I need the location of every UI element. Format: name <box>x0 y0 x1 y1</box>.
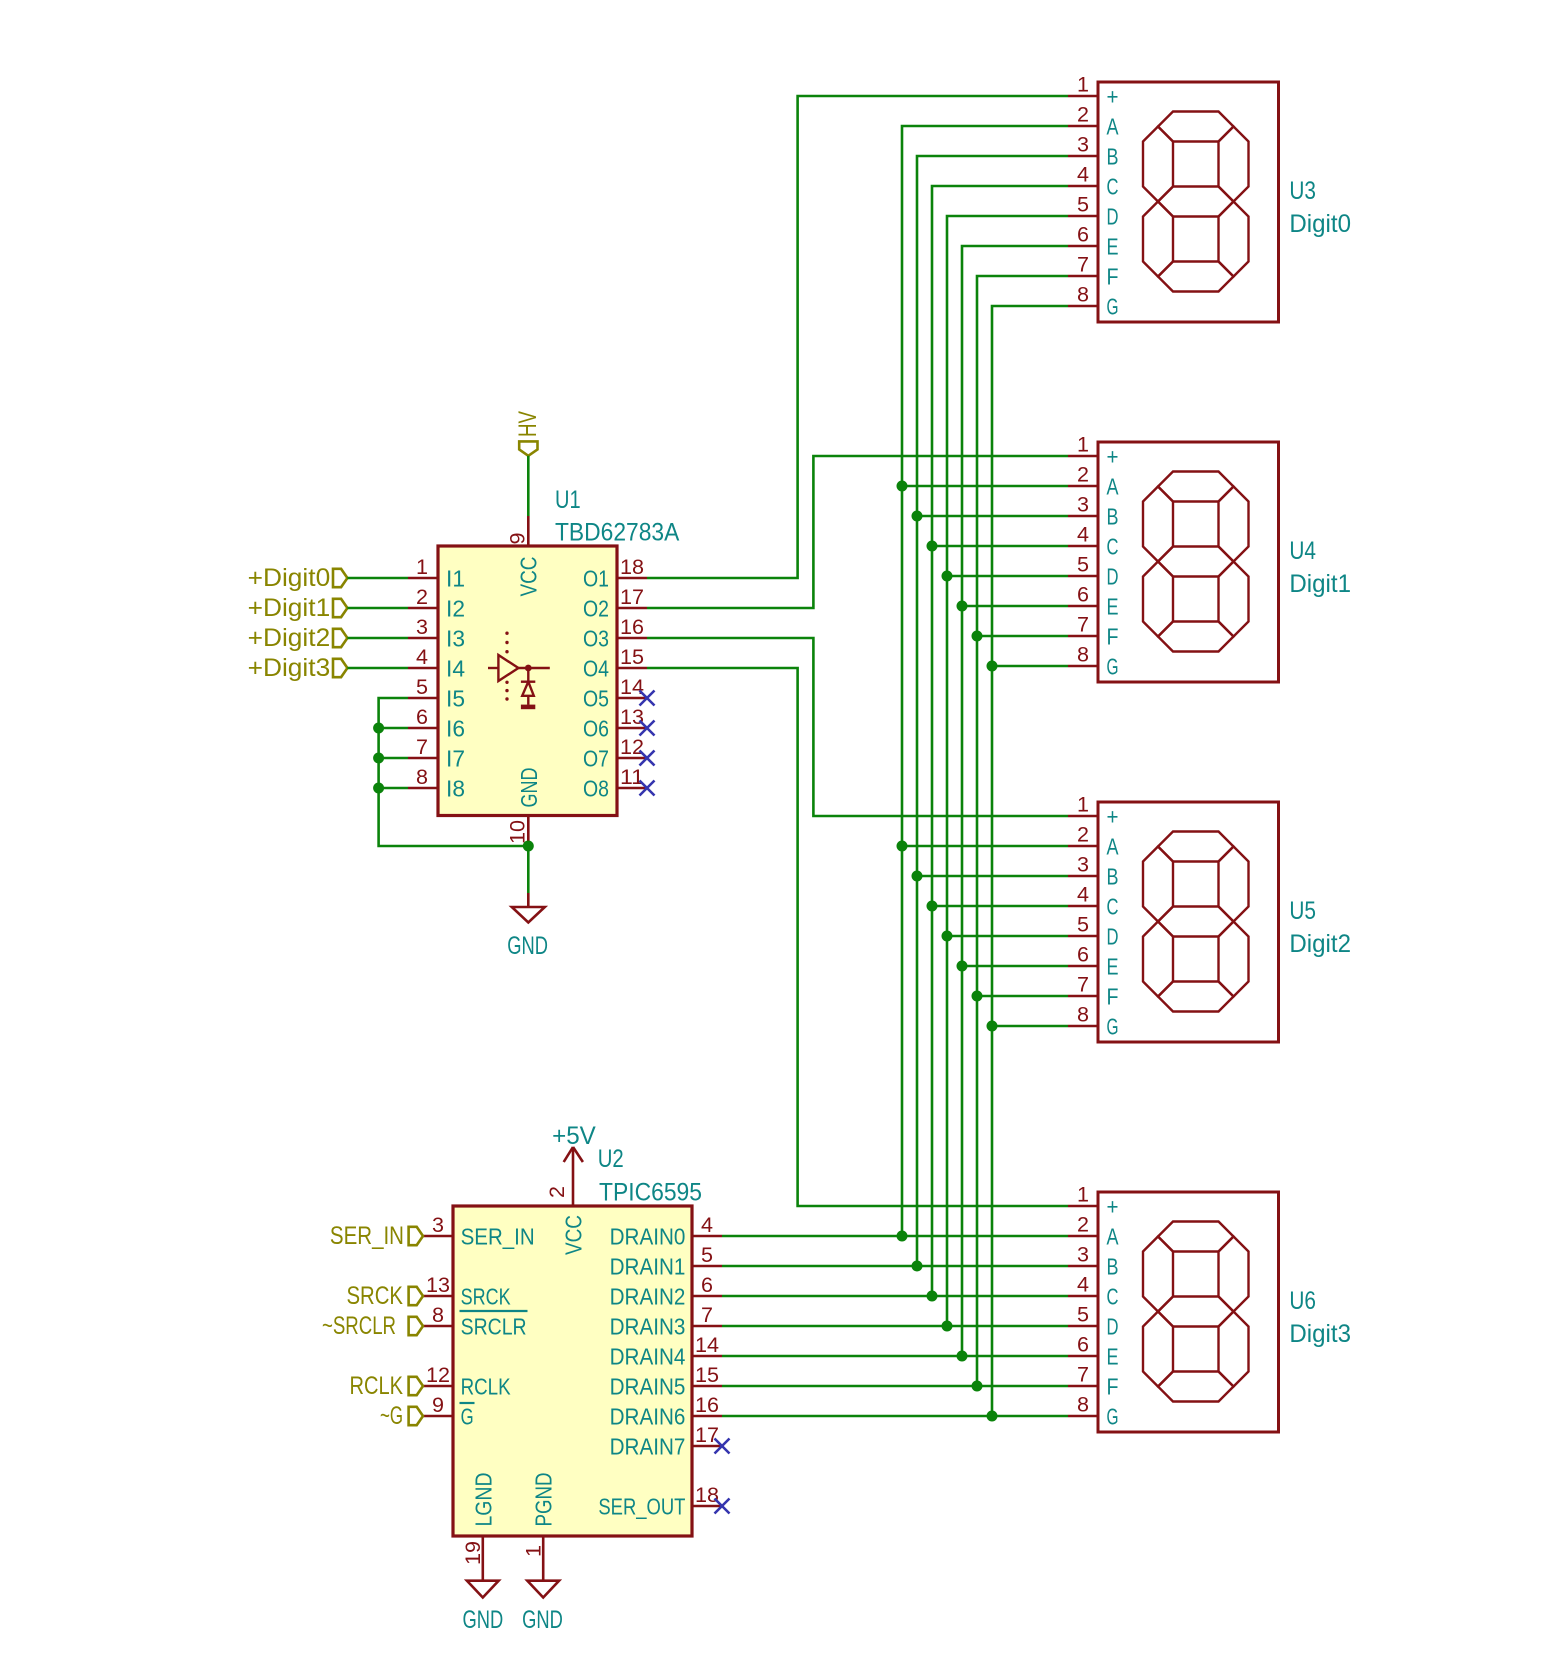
U3 segment C artwork <box>1219 202 1249 277</box>
U6 pin 7 (F) <box>1068 1364 1119 1400</box>
U4 segment C artwork <box>1219 562 1249 637</box>
U1 pin 7 (I7) <box>408 736 465 771</box>
svg-text:A: A <box>1107 1223 1120 1249</box>
U1 pin 11 (O8) <box>583 766 647 801</box>
U1 pin 2 (I2) <box>408 586 465 621</box>
svg-text:O2: O2 <box>583 595 609 621</box>
svg-text:+Digit1: +Digit1 <box>248 594 331 622</box>
U3 pin 5 (D) <box>1068 194 1119 230</box>
svg-text:B: B <box>1107 503 1119 529</box>
U6 segment C artwork <box>1219 1312 1249 1387</box>
svg-text:HV: HV <box>514 411 542 437</box>
svg-text:3: 3 <box>1077 134 1089 157</box>
svg-text:7: 7 <box>416 736 428 759</box>
U1 pin 10 (GND) <box>506 768 542 846</box>
svg-text:Digit3: Digit3 <box>1289 1320 1351 1348</box>
U3 pin 6 (E) <box>1068 224 1119 260</box>
svg-text:+: + <box>1107 803 1119 829</box>
U3 pin 4 (C) <box>1068 164 1119 200</box>
wire +Digit3 to U1 I4 <box>347 667 408 670</box>
svg-text:F: F <box>1107 983 1119 1009</box>
U2 pin 19 (LGND) <box>462 1473 496 1567</box>
junction SEG_G at U5 <box>987 1021 998 1032</box>
junction SEG_E at U4 <box>957 601 968 612</box>
svg-text:4: 4 <box>1077 884 1089 907</box>
svg-text:7: 7 <box>1077 254 1089 277</box>
U1 pin 8 (I8) <box>408 766 465 801</box>
svg-text:SER_IN: SER_IN <box>461 1223 535 1249</box>
junction SEG_E at U5 <box>957 961 968 972</box>
svg-text:+Digit2: +Digit2 <box>248 624 331 652</box>
U2 pin 5 (DRAIN1) <box>610 1244 722 1279</box>
U1 pin 14 (O5) <box>583 676 647 711</box>
U5 segment B artwork <box>1219 847 1249 922</box>
svg-text:7: 7 <box>701 1304 713 1327</box>
U5 segment D artwork <box>1158 982 1234 1012</box>
U5 pin 4 (C) <box>1068 884 1119 920</box>
svg-text:DRAIN1: DRAIN1 <box>610 1253 686 1279</box>
U1 pin 12 (O7) <box>583 736 647 771</box>
svg-text:I4: I4 <box>446 655 465 681</box>
svg-text:O4: O4 <box>583 655 609 681</box>
svg-text:11: 11 <box>620 766 644 789</box>
U4 segment G artwork <box>1158 547 1234 577</box>
junction SEG_G at U4 <box>987 661 998 672</box>
U5 pin 2 (A) <box>1068 824 1119 860</box>
U3 segment B artwork <box>1219 127 1249 202</box>
svg-text:8: 8 <box>1077 1394 1089 1417</box>
junction SEG_D at U4 <box>942 571 953 582</box>
svg-text:F: F <box>1107 263 1119 289</box>
junction SEG_A at U5 <box>897 841 908 852</box>
svg-text:3: 3 <box>432 1214 444 1237</box>
U6 pin 1 (+) <box>1068 1184 1119 1220</box>
svg-text:2: 2 <box>546 1186 569 1198</box>
hierarchical label SRCK <box>347 1282 424 1310</box>
junction U1 GND net <box>523 841 534 852</box>
U4 pin 2 (A) <box>1068 464 1119 500</box>
junction SEG_B at U5 <box>912 871 923 882</box>
U2 pin 16 (DRAIN6) <box>610 1394 722 1429</box>
svg-text:O8: O8 <box>583 775 609 801</box>
U6 segment F artwork <box>1143 1237 1173 1312</box>
U5 pin 1 (+) <box>1068 794 1119 830</box>
svg-text:~G: ~G <box>380 1402 403 1430</box>
U1 pin 17 (O2) <box>583 586 647 621</box>
svg-text:13: 13 <box>620 706 644 729</box>
wire net Digit2+ (U1 O3 to U5 pin1) <box>647 638 1068 816</box>
U2 pin 3 (SER_IN) <box>423 1214 535 1249</box>
svg-text:DRAIN6: DRAIN6 <box>610 1403 686 1429</box>
junction SEG_C at U5 <box>927 901 938 912</box>
svg-text:B: B <box>1107 143 1119 169</box>
U4 segment E artwork <box>1143 562 1173 637</box>
svg-text:A: A <box>1107 113 1120 139</box>
svg-text:+Digit3: +Digit3 <box>248 654 331 682</box>
svg-text:TPIC6595: TPIC6595 <box>599 1179 702 1207</box>
junction SEG_F at U5 <box>972 991 983 1002</box>
svg-text:DRAIN5: DRAIN5 <box>610 1373 686 1399</box>
svg-text:19: 19 <box>462 1541 485 1565</box>
svg-text:5: 5 <box>1077 554 1089 577</box>
no-connect X on U1 O7 <box>640 751 655 766</box>
svg-text:SRCK: SRCK <box>347 1282 404 1310</box>
svg-text:13: 13 <box>426 1274 450 1297</box>
svg-text:DRAIN3: DRAIN3 <box>610 1313 686 1339</box>
svg-text:7: 7 <box>1077 1364 1089 1387</box>
U6 pin 2 (A) <box>1068 1214 1119 1250</box>
svg-text:I5: I5 <box>446 685 465 711</box>
svg-text:Digit1: Digit1 <box>1289 570 1351 598</box>
svg-text:G: G <box>461 1403 474 1429</box>
svg-text:F: F <box>1107 1373 1119 1399</box>
svg-text:4: 4 <box>416 646 428 669</box>
U4 segment F artwork <box>1143 487 1173 562</box>
svg-text:RCLK: RCLK <box>350 1372 404 1400</box>
junction SEG_A at U4 <box>897 481 908 492</box>
U3 pin 8 (G) <box>1068 284 1119 320</box>
junction U1 I7 tie <box>373 753 384 764</box>
U3 segment F artwork <box>1143 127 1173 202</box>
svg-text:6: 6 <box>416 706 428 729</box>
U6 pin 6 (E) <box>1068 1334 1119 1370</box>
U4 pin 6 (E) <box>1068 584 1119 620</box>
U1 pin 18 (O1) <box>583 556 647 591</box>
junction SEG_B at U6 <box>912 1261 923 1272</box>
svg-text:10: 10 <box>506 820 529 844</box>
svg-text:SRCK: SRCK <box>461 1283 512 1309</box>
svg-text:G: G <box>1107 1013 1119 1039</box>
power symbol +5V (U2 pin 2) <box>552 1122 596 1176</box>
svg-text:2: 2 <box>1077 1214 1089 1237</box>
svg-text:B: B <box>1107 863 1119 889</box>
svg-text:U6: U6 <box>1289 1287 1316 1315</box>
svg-text:1: 1 <box>1077 434 1089 457</box>
svg-text:4: 4 <box>1077 164 1089 187</box>
junction SEG_F at U6 <box>972 1381 983 1392</box>
wire net Digit1+ (U1 O2 to U4 pin1) <box>647 456 1068 608</box>
U1 internal driver symbol (buffer triangle + clamp diode) <box>488 632 550 710</box>
svg-text:A: A <box>1107 833 1120 859</box>
U2 pin 6 (DRAIN2) <box>610 1274 722 1309</box>
svg-text:6: 6 <box>1077 1334 1089 1357</box>
svg-text:G: G <box>1107 293 1119 319</box>
svg-text:DRAIN7: DRAIN7 <box>610 1433 686 1459</box>
svg-text:+Digit0: +Digit0 <box>248 564 331 592</box>
U6 segment G artwork <box>1158 1297 1234 1327</box>
wire net SEG_D (U2 DRAIN3 bus to displays) <box>722 216 1068 1326</box>
svg-text:O5: O5 <box>583 685 609 711</box>
svg-text:U1: U1 <box>555 486 581 514</box>
svg-text:5: 5 <box>1077 914 1089 937</box>
hierarchical label RCLK <box>350 1372 424 1400</box>
svg-text:E: E <box>1107 1343 1119 1369</box>
U2 pin 7 (DRAIN3) <box>610 1304 722 1339</box>
no-connect X on U1 O8 <box>640 781 655 796</box>
svg-text:GND: GND <box>516 768 542 808</box>
U5 pin 3 (B) <box>1068 854 1119 890</box>
wire net SEG_F (U2 DRAIN5 bus to displays) <box>722 276 1068 1386</box>
svg-text:O3: O3 <box>583 625 609 651</box>
svg-text:~SRCLR: ~SRCLR <box>322 1312 396 1340</box>
junction SEG_A at U6 <box>897 1231 908 1242</box>
svg-text:9: 9 <box>432 1394 444 1417</box>
U1 pin 3 (I3) <box>408 616 465 651</box>
U5 pin 8 (G) <box>1068 1004 1119 1040</box>
no-connect X on SER_OUT <box>715 1499 730 1514</box>
svg-text:G: G <box>1107 1403 1119 1429</box>
svg-text:Digit0: Digit0 <box>1289 210 1351 238</box>
svg-text:4: 4 <box>701 1214 713 1237</box>
U1 pin 5 (I5) <box>408 676 465 711</box>
svg-text:I6: I6 <box>446 715 465 741</box>
IC U1 TBD62783A body <box>438 546 617 816</box>
svg-text:O6: O6 <box>583 715 609 741</box>
svg-text:C: C <box>1107 1283 1119 1309</box>
junction SEG_C at U4 <box>927 541 938 552</box>
U2 pin 8 (SRCLR) <box>423 1304 528 1339</box>
svg-text:1: 1 <box>522 1545 545 1557</box>
U5 pin 7 (F) <box>1068 974 1119 1010</box>
svg-text:5: 5 <box>416 676 428 699</box>
hierarchical label +Digit2 <box>248 624 348 652</box>
svg-text:15: 15 <box>695 1364 719 1387</box>
wire net SEG_G (U2 DRAIN6 bus to displays) <box>722 306 1068 1416</box>
svg-text:+: + <box>1107 443 1119 469</box>
wire net SEG_C (U2 DRAIN2 bus to displays) <box>722 186 1068 1296</box>
svg-text:14: 14 <box>620 676 644 699</box>
U3 pin 7 (F) <box>1068 254 1119 290</box>
svg-text:C: C <box>1107 173 1119 199</box>
junction SEG_B at U4 <box>912 511 923 522</box>
svg-text:D: D <box>1107 563 1119 589</box>
svg-text:3: 3 <box>1077 1244 1089 1267</box>
7-segment display U3 body <box>1098 82 1279 322</box>
svg-text:2: 2 <box>1077 464 1089 487</box>
U2 pin 12 (RCLK) <box>423 1364 511 1399</box>
U6 segment B artwork <box>1219 1237 1249 1312</box>
wire net SEG_E (U2 DRAIN4 bus to displays) <box>722 246 1068 1356</box>
U5 segment A artwork <box>1158 832 1234 862</box>
svg-text:12: 12 <box>426 1364 450 1387</box>
U5 pin 5 (D) <box>1068 914 1119 950</box>
svg-text:E: E <box>1107 233 1119 259</box>
U3 pin 3 (B) <box>1068 134 1119 170</box>
svg-text:DRAIN2: DRAIN2 <box>610 1283 686 1309</box>
svg-text:15: 15 <box>620 646 644 669</box>
svg-text:D: D <box>1107 1313 1119 1339</box>
U3 segment E artwork <box>1143 202 1173 277</box>
svg-text:O7: O7 <box>583 745 609 771</box>
svg-text:6: 6 <box>1077 584 1089 607</box>
svg-text:3: 3 <box>416 616 428 639</box>
U5 pin 6 (E) <box>1068 944 1119 980</box>
svg-text:SER_OUT: SER_OUT <box>598 1493 685 1519</box>
svg-text:8: 8 <box>416 766 428 789</box>
svg-text:F: F <box>1107 623 1119 649</box>
U6 pin 8 (G) <box>1068 1394 1119 1430</box>
wire stub U1 I6 <box>379 727 408 730</box>
svg-text:RCLK: RCLK <box>461 1373 512 1399</box>
U1 pin 9 (VCC) <box>507 516 542 597</box>
svg-text:TBD62783A: TBD62783A <box>555 519 680 547</box>
junction SEG_D at U5 <box>942 931 953 942</box>
svg-text:D: D <box>1107 203 1119 229</box>
junction U1 I8 tie <box>373 783 384 794</box>
svg-text:+: + <box>1107 1193 1119 1219</box>
svg-text:7: 7 <box>1077 614 1089 637</box>
svg-text:I8: I8 <box>446 775 465 801</box>
wire +Digit1 to U1 I2 <box>347 607 408 610</box>
wire stub U1 I7 <box>379 757 408 760</box>
U5 segment F artwork <box>1143 847 1173 922</box>
U2 pin 18 (SER_OUT) <box>598 1484 722 1519</box>
svg-text:8: 8 <box>1077 644 1089 667</box>
svg-text:GND: GND <box>463 1606 504 1634</box>
U4 pin 1 (+) <box>1068 434 1119 470</box>
7-segment display U4 body <box>1098 442 1279 682</box>
svg-text:A: A <box>1107 473 1120 499</box>
svg-text:DRAIN4: DRAIN4 <box>610 1343 686 1369</box>
wire U1 GND pin to GND symbol <box>527 845 530 893</box>
svg-text:VCC: VCC <box>516 557 542 597</box>
svg-text:5: 5 <box>1077 194 1089 217</box>
svg-text:VCC: VCC <box>560 1215 586 1255</box>
svg-text:1: 1 <box>1077 794 1089 817</box>
U2 pin 14 (DRAIN4) <box>610 1334 722 1369</box>
junction SEG_C at U6 <box>927 1291 938 1302</box>
wire HV to U1 VCC <box>527 456 530 516</box>
U6 pin 4 (C) <box>1068 1274 1119 1310</box>
svg-text:+: + <box>1107 83 1119 109</box>
U3 segment A artwork <box>1158 112 1234 142</box>
U5 segment G artwork <box>1158 907 1234 937</box>
svg-text:2: 2 <box>1077 104 1089 127</box>
U2 pin 9 (G) <box>423 1394 475 1429</box>
hierarchical label ~SRCLR <box>322 1312 423 1340</box>
wire stub U1 I8 <box>379 787 408 790</box>
svg-text:2: 2 <box>416 586 428 609</box>
svg-text:18: 18 <box>695 1484 719 1507</box>
svg-text:3: 3 <box>1077 494 1089 517</box>
svg-text:9: 9 <box>507 533 530 545</box>
power symbol GND (U2 pin 1 PGND) <box>522 1566 563 1634</box>
svg-text:C: C <box>1107 533 1119 559</box>
svg-text:I1: I1 <box>446 565 465 591</box>
svg-text:4: 4 <box>1077 524 1089 547</box>
U4 pin 3 (B) <box>1068 494 1119 530</box>
svg-text:SER_IN: SER_IN <box>330 1222 404 1250</box>
U2 pin 13 (SRCK) <box>423 1274 511 1309</box>
svg-text:18: 18 <box>620 556 644 579</box>
svg-text:8: 8 <box>432 1304 444 1327</box>
U2 pin 4 (DRAIN0) <box>610 1214 722 1249</box>
U6 pin 5 (D) <box>1068 1304 1119 1340</box>
U4 pin 7 (F) <box>1068 614 1119 650</box>
svg-text:17: 17 <box>620 586 644 609</box>
U3 segment D artwork <box>1158 262 1234 292</box>
no-connect X on DRAIN7 <box>715 1439 730 1454</box>
svg-text:6: 6 <box>1077 224 1089 247</box>
svg-text:1: 1 <box>1077 74 1089 97</box>
U3 pin 1 (+) <box>1068 74 1119 110</box>
U2 pin 17 (DRAIN7) <box>610 1424 722 1459</box>
junction SEG_E at U6 <box>957 1351 968 1362</box>
svg-text:12: 12 <box>620 736 644 759</box>
U1 pin 6 (I6) <box>408 706 465 741</box>
U4 pin 8 (G) <box>1068 644 1119 680</box>
wire +Digit0 to U1 I1 <box>347 577 408 580</box>
svg-text:E: E <box>1107 953 1119 979</box>
svg-text:16: 16 <box>620 616 644 639</box>
U5 segment E artwork <box>1143 922 1173 997</box>
svg-text:U2: U2 <box>598 1145 624 1173</box>
svg-text:GND: GND <box>507 932 548 960</box>
svg-text:I2: I2 <box>446 595 465 621</box>
U6 pin 3 (B) <box>1068 1244 1119 1280</box>
7-segment display U6 body <box>1098 1192 1279 1432</box>
svg-text:I7: I7 <box>446 745 465 771</box>
svg-text:U4: U4 <box>1289 537 1316 565</box>
svg-text:17: 17 <box>695 1424 719 1447</box>
U5 segment C artwork <box>1219 922 1249 997</box>
svg-text:6: 6 <box>701 1274 713 1297</box>
U4 pin 4 (C) <box>1068 524 1119 560</box>
svg-text:4: 4 <box>1077 1274 1089 1297</box>
svg-text:6: 6 <box>1077 944 1089 967</box>
svg-text:D: D <box>1107 923 1119 949</box>
hierarchical label ~G <box>380 1402 423 1430</box>
svg-text:5: 5 <box>1077 1304 1089 1327</box>
svg-text:I3: I3 <box>446 625 465 651</box>
U1 pin 1 (I1) <box>408 556 465 591</box>
svg-text:SRCLR: SRCLR <box>461 1313 527 1339</box>
junction SEG_D at U6 <box>942 1321 953 1332</box>
7-segment display U5 body <box>1098 802 1279 1042</box>
svg-text:+5V: +5V <box>552 1122 596 1150</box>
svg-text:1: 1 <box>416 556 428 579</box>
wire net SEG_B (U2 DRAIN1 bus to displays) <box>722 156 1068 1266</box>
svg-text:C: C <box>1107 893 1119 919</box>
svg-text:8: 8 <box>1077 284 1089 307</box>
junction SEG_G at U6 <box>987 1411 998 1422</box>
svg-text:G: G <box>1107 653 1119 679</box>
svg-text:DRAIN0: DRAIN0 <box>610 1223 686 1249</box>
U4 pin 5 (D) <box>1068 554 1119 590</box>
svg-text:8: 8 <box>1077 1004 1089 1027</box>
U1 pin 4 (I4) <box>408 646 465 681</box>
U3 segment G artwork <box>1158 187 1234 217</box>
hierarchical label HV (vertical) <box>514 411 542 456</box>
svg-text:14: 14 <box>695 1334 719 1357</box>
wire net Digit3+ (U1 O4 to U6 pin1) <box>647 668 1068 1206</box>
U1 pin 16 (O3) <box>583 616 647 651</box>
hierarchical label +Digit3 <box>248 654 348 682</box>
U4 segment B artwork <box>1219 487 1249 562</box>
svg-text:E: E <box>1107 593 1119 619</box>
U1 pin 15 (O4) <box>583 646 647 681</box>
svg-text:5: 5 <box>701 1244 713 1267</box>
U2 pin 2 (VCC) <box>546 1176 586 1255</box>
U4 segment A artwork <box>1158 472 1234 502</box>
U6 segment A artwork <box>1158 1222 1234 1252</box>
U6 segment E artwork <box>1143 1312 1173 1387</box>
hierarchical label +Digit1 <box>248 594 348 622</box>
svg-text:2: 2 <box>1077 824 1089 847</box>
wire net Digit0+ (U1 O1 to U3 pin1) <box>647 96 1068 578</box>
svg-text:PGND: PGND <box>531 1473 557 1527</box>
svg-text:B: B <box>1107 1253 1119 1279</box>
